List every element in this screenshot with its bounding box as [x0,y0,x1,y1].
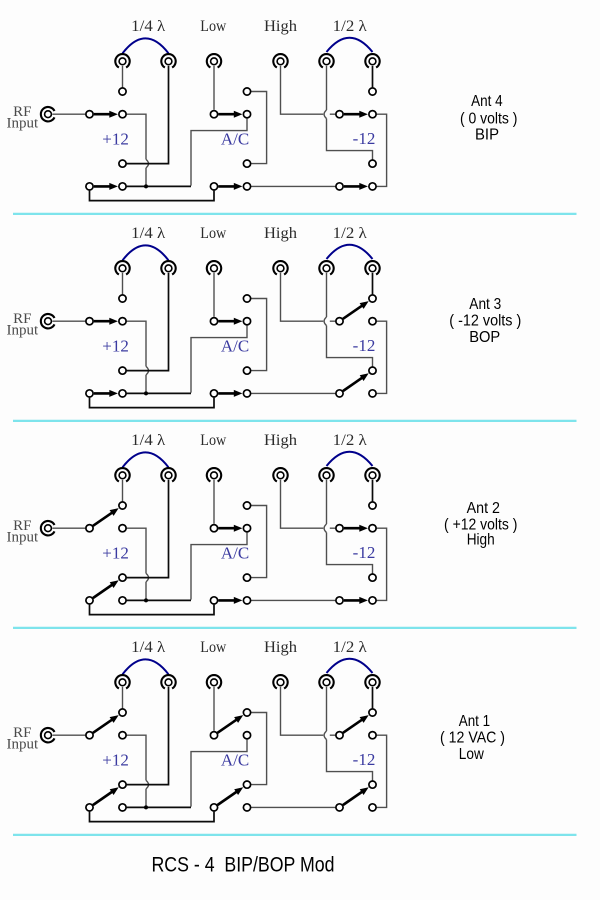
pin K2 NC-1 panel 3 [243,525,250,532]
wire K3 right bus panel 3 [377,528,387,600]
wire 1/4-wave-right drop panel 1 [127,66,169,164]
junction panel 1 [144,184,148,188]
terminal 1/2-wave right panel 2 [365,261,379,274]
contact arrow K2 pole-2 panel 1 [218,183,242,190]
wire 1/4-wave-right drop panel 3 [127,480,169,578]
pin K2 NC-1 panel 2 [243,318,250,325]
svg-text:1/2 λ: 1/2 λ [333,225,367,242]
wire 1/2-wave-left drop to -12 pin panel 4 [327,687,373,781]
terminal High panel 2 [273,261,287,274]
svg-text:+12: +12 [102,130,129,149]
svg-text:1/2 λ: 1/2 λ [333,639,367,656]
1/4-wave jumper arc panel 4 [123,659,169,674]
1/4-wave jumper arc panel 2 [123,245,169,260]
wire High drop and lead panel 3 [281,480,336,528]
terminal 1/4-wave left panel 2 [115,261,129,274]
wire bottom bus left panel 1 [127,185,191,187]
wire bottom bus left panel 4 [127,806,191,808]
pin K2 NO lower panel 3 [243,574,250,581]
wire RF lead panel 2 [52,320,85,322]
pin K1 NO upper panel 4 [119,709,126,716]
pin K3 pole-1 movable panel 1 [336,111,343,118]
svg-text:1/2 λ: 1/2 λ [333,18,367,35]
pin K3 NC-2 panel 4 [369,804,376,811]
svg-text:High: High [264,225,297,242]
pin K2 pole-1 movable panel 3 [210,525,217,532]
1/2-wave jumper arc panel 2 [327,245,373,259]
wire 1/4-wave-left drop panel 1 [122,66,124,87]
terminal 1/2-wave right panel 3 [365,468,379,481]
terminal 1/4-wave left panel 3 [115,468,129,481]
contact arrow K3 pole-2 panel 3 [344,597,368,604]
svg-text:A/C: A/C [221,337,249,356]
svg-text:High: High [467,532,495,549]
svg-text:Input: Input [6,116,38,132]
svg-text:Input: Input [6,737,38,753]
pin K2 NO lower panel 1 [243,160,250,167]
svg-text:-12: -12 [353,129,376,148]
pin K1 NC-2 panel 4 [119,804,126,811]
pin K1 pole-2 movable panel 4 [86,804,93,811]
svg-text:1/2 λ: 1/2 λ [333,432,367,449]
svg-text:A/C: A/C [221,544,249,563]
pin K2 NO upper panel 1 [243,88,250,95]
wire K2 to K3 bottom panel 4 [251,806,335,808]
pin K1 NO upper panel 2 [119,295,126,302]
wire Low drop panel 1 [213,66,215,110]
contact arrow K1 pole-2 engaged-up panel 3 [93,580,119,598]
divider line 4 [13,834,577,836]
pin K1 NC-2 panel 2 [119,390,126,397]
contact arrow K1 pole-2 panel 1 [94,183,118,190]
wire 1/2-wave-right drop panel 1 [372,66,374,87]
1/2-wave jumper arc panel 1 [327,38,373,52]
contact arrow K3 pole-2 engaged-up panel 4 [343,787,369,805]
wire K2 pole to bottom bus panel 4 [191,739,247,806]
pin K2 NO lower panel 4 [243,781,250,788]
svg-text:Ant 4: Ant 4 [471,93,503,110]
svg-text:( -12 volts ): ( -12 volts ) [449,313,521,330]
pin K1 NC-1 panel 1 [119,111,126,118]
pin K3 pole-2 movable panel 1 [336,183,343,190]
svg-text:-12: -12 [353,336,376,355]
pin K3 pole-2 movable panel 4 [336,804,343,811]
divider line 1 [13,213,577,215]
pin K2 NO lower panel 2 [243,367,250,374]
svg-text:( 0 volts ): ( 0 volts ) [460,111,518,128]
pin K3 NO upper panel 3 [369,502,376,509]
wire K3 right bus panel 1 [377,114,387,186]
wire hop over 1/4-wave line panel 3 [146,573,149,582]
svg-text:1/4 λ: 1/4 λ [131,18,165,35]
wire A/C loop panel 4 [251,713,267,785]
wire 1/2-wave-right drop panel 2 [372,273,374,294]
pin K3 pole-2 movable panel 3 [336,597,343,604]
wire Low drop panel 2 [213,273,215,317]
terminal Low panel 3 [207,468,221,481]
pin K2 NC-2 panel 1 [243,183,250,190]
pin K3 NO upper panel 1 [369,88,376,95]
divider line 3 [13,627,577,629]
svg-text:1/4 λ: 1/4 λ [131,225,165,242]
wire RF lead panel 1 [52,113,85,115]
terminal 1/4-wave left panel 4 [115,675,129,688]
wire K1 pin to bottom bus panel 4 [127,735,146,807]
wire hop over High lead panel 1 [324,110,326,119]
contact arrow K1 pole-1 engaged-up panel 3 [93,508,119,526]
wire High drop and lead panel 2 [281,273,336,321]
svg-text:1/4 λ: 1/4 λ [131,639,165,656]
wire 1/2-wave-left drop to -12 pin panel 3 [327,480,373,574]
pin K1 NO lower panel 3 [119,574,126,581]
pin K2 NC-2 panel 3 [243,597,250,604]
pin K2 pole-1 movable panel 1 [210,111,217,118]
pin K2 pole-2 movable panel 3 [210,597,217,604]
svg-text:+12: +12 [102,337,129,356]
wire 1/2-wave-right drop panel 4 [372,687,374,708]
contact arrow K3 pole-1 panel 1 [344,111,368,118]
wire 1/2-wave-right drop panel 3 [372,480,374,501]
RF input connector panel 2 [41,314,55,328]
pin K3 pole-1 movable panel 3 [336,525,343,532]
wire K2 pole to bottom bus panel 1 [191,118,247,185]
svg-text:( 12 VAC ): ( 12 VAC ) [440,730,505,747]
pin K2 NC-2 panel 4 [243,804,250,811]
terminal 1/2-wave left panel 1 [319,54,333,67]
terminal Low panel 2 [207,261,221,274]
1/4-wave jumper arc panel 3 [123,452,169,467]
svg-text:Low: Low [200,639,226,656]
contact arrow K1 pole-1 panel 2 [94,318,118,325]
pin K2 pole-1 movable panel 4 [210,732,217,739]
contact arrow K2 pole-1 engaged-up panel 4 [218,715,244,733]
pin K3 NO lower panel 3 [369,574,376,581]
contact arrow K1 pole-2 engaged-up panel 4 [93,787,119,805]
wire 1/4-wave-right drop panel 2 [127,273,169,371]
wire 1/4-wave-left drop panel 3 [122,480,124,501]
wire Low drop panel 3 [213,480,215,524]
pin K3 NC-2 panel 3 [369,597,376,604]
svg-text:Ant 1: Ant 1 [459,713,490,730]
contact arrow K1 pole-1 engaged-up panel 4 [93,715,119,733]
wire A/C loop panel 2 [251,299,267,371]
pin K1 NC-1 panel 2 [119,318,126,325]
pin K1 pole-2 movable panel 2 [86,390,93,397]
svg-text:A/C: A/C [221,130,249,149]
contact arrow K2 pole-1 panel 3 [218,525,242,532]
contact arrow K2 pole-1 panel 2 [218,318,242,325]
svg-text:Ant 3: Ant 3 [469,296,501,313]
wire RF lead panel 4 [52,734,85,736]
pin K2 pole-2 movable panel 1 [210,183,217,190]
pin K2 pole-1 movable panel 2 [210,318,217,325]
wire A/C loop panel 3 [251,506,267,578]
pin K1 NO upper panel 3 [119,502,126,509]
1/2-wave jumper arc panel 4 [327,659,373,673]
pin K1 pole-1 movable panel 4 [86,732,93,739]
wire 1/4-wave-right drop panel 4 [127,687,169,785]
junction panel 4 [144,805,148,809]
pin K3 NC-1 panel 1 [369,111,376,118]
pin K3 pole-1 movable panel 2 [336,318,343,325]
wire K1 pin to bottom bus panel 1 [127,114,146,186]
1/4-wave jumper arc panel 1 [123,38,169,53]
wire 1/2-wave-left drop to -12 pin panel 1 [327,66,373,160]
contact arrow K2 pole-2 engaged-up panel 4 [218,787,244,805]
terminal 1/4-wave right panel 4 [161,675,175,688]
terminal High panel 4 [273,675,287,688]
wire hop over High lead panel 3 [324,524,326,533]
terminal 1/4-wave right panel 1 [161,54,175,67]
svg-text:Low: Low [459,746,484,763]
pin K1 pole-2 movable panel 1 [86,183,93,190]
wire K3 right bus panel 4 [377,735,387,807]
wire lower return panel 4 [90,812,215,822]
pin K3 NO lower panel 4 [369,781,376,788]
svg-text:-12: -12 [353,543,376,562]
wire lower return panel 2 [90,398,215,408]
RF input connector panel 1 [41,107,55,121]
wire High drop and lead panel 1 [281,66,336,114]
terminal Low panel 4 [207,675,221,688]
wire Low drop panel 4 [213,687,215,731]
terminal 1/2-wave left panel 4 [319,675,333,688]
svg-text:Input: Input [6,323,38,339]
svg-text:High: High [264,18,297,35]
pin K3 pole-1 movable panel 4 [336,732,343,739]
svg-text:Low: Low [200,225,226,242]
terminal 1/2-wave left panel 3 [319,468,333,481]
svg-text:BOP: BOP [469,329,500,346]
wire hop over High lead panel 4 [324,731,326,740]
contact arrow K2 pole-2 panel 3 [218,597,242,604]
terminal 1/4-wave right panel 3 [161,468,175,481]
pin K2 pole-2 movable panel 4 [210,804,217,811]
wire K2 to K3 bottom panel 1 [251,185,335,187]
terminal High panel 1 [273,54,287,67]
terminal High panel 3 [273,468,287,481]
junction panel 3 [144,598,148,602]
wire bottom bus left panel 2 [127,392,191,394]
wire K3 right bus panel 2 [377,321,387,393]
terminal 1/4-wave right panel 2 [161,261,175,274]
RF input connector panel 4 [41,728,55,742]
pin K1 NO lower panel 4 [119,781,126,788]
wire K2 pole to bottom bus panel 3 [191,532,247,599]
svg-text:Low: Low [200,18,226,35]
contact arrow K1 pole-1 panel 1 [94,111,118,118]
pin K3 NC-2 panel 1 [369,183,376,190]
svg-text:High: High [264,639,297,656]
svg-text:+12: +12 [102,751,129,770]
svg-text:Low: Low [200,432,226,449]
contact arrow K2 pole-2 panel 2 [218,390,242,397]
pin K2 NO upper panel 3 [243,502,250,509]
contact arrow K1 pole-2 panel 2 [94,390,118,397]
wire High drop and lead panel 4 [281,687,336,735]
1/2-wave jumper arc panel 3 [327,452,373,466]
wire bottom bus left panel 3 [127,599,191,601]
pin K3 NC-2 panel 2 [369,390,376,397]
pin K1 pole-2 movable panel 3 [86,597,93,604]
terminal Low panel 1 [207,54,221,67]
contact arrow K3 pole-1 engaged-up panel 2 [343,301,369,319]
pin K3 NO lower panel 1 [369,160,376,167]
pin K2 NO upper panel 2 [243,295,250,302]
pin K2 NC-2 panel 2 [243,390,250,397]
pin K1 pole-1 movable panel 2 [86,318,93,325]
pin K1 NC-1 panel 3 [119,525,126,532]
terminal 1/2-wave left panel 2 [319,261,333,274]
wire hop over 1/4-wave line panel 2 [146,366,149,375]
wire lower return panel 3 [90,605,215,615]
pin K1 NC-1 panel 4 [119,732,126,739]
pin K2 pole-2 movable panel 2 [210,390,217,397]
wire 1/4-wave-left drop panel 2 [122,273,124,294]
svg-text:Ant 2: Ant 2 [467,500,500,517]
wire hop over High lead panel 2 [324,317,326,326]
pin K2 NC-1 panel 4 [243,732,250,739]
contact arrow K2 pole-1 panel 1 [218,111,242,118]
pin K1 NC-2 panel 1 [119,183,126,190]
wire K2 to K3 bottom panel 3 [251,599,335,601]
pin K3 NO upper panel 2 [369,295,376,302]
wire K2 pole to bottom bus panel 2 [191,325,247,392]
pin K3 NC-1 panel 3 [369,525,376,532]
terminal 1/4-wave left panel 1 [115,54,129,67]
pin K3 NC-1 panel 2 [369,318,376,325]
RF input connector panel 3 [41,521,55,535]
svg-text:RCS - 4 BIP/BOP Mod: RCS - 4 BIP/BOP Mod [152,854,335,877]
svg-text:A/C: A/C [221,751,249,770]
svg-text:1/4 λ: 1/4 λ [131,432,165,449]
pin K1 NO upper panel 1 [119,88,126,95]
contact arrow K3 pole-2 engaged-up panel 2 [343,373,369,391]
pin K1 NO lower panel 1 [119,160,126,167]
divider line 2 [13,420,577,422]
pin K2 NO upper panel 4 [243,709,250,716]
wire 1/4-wave-left drop panel 4 [122,687,124,708]
wire hop over 1/4-wave line panel 1 [146,159,149,168]
wire K1 pin to bottom bus panel 3 [127,528,146,600]
contact arrow K3 pole-2 panel 1 [344,183,368,190]
pin K3 NC-1 panel 4 [369,732,376,739]
pin K3 NO lower panel 2 [369,367,376,374]
wire K2 to K3 bottom panel 2 [251,392,335,394]
junction panel 2 [144,391,148,395]
svg-text:High: High [264,432,297,449]
pin K3 NO upper panel 4 [369,709,376,716]
wire hop over 1/4-wave line panel 4 [146,780,149,789]
terminal 1/2-wave right panel 4 [365,675,379,688]
wire 1/2-wave-left drop to -12 pin panel 2 [327,273,373,367]
svg-text:Input: Input [6,530,38,546]
pin K1 pole-1 movable panel 3 [86,525,93,532]
pin K1 NC-2 panel 3 [119,597,126,604]
contact arrow K3 pole-1 engaged-up panel 4 [343,715,369,733]
wire A/C loop panel 1 [251,92,267,164]
svg-text:-12: -12 [353,750,376,769]
pin K2 NC-1 panel 1 [243,111,250,118]
svg-text:+12: +12 [102,544,129,563]
svg-text:BIP: BIP [475,127,499,144]
terminal 1/2-wave right panel 1 [365,54,379,67]
wire lower return panel 1 [90,191,215,201]
pin K1 NO lower panel 2 [119,367,126,374]
pin K1 pole-1 movable panel 1 [86,111,93,118]
contact arrow K3 pole-1 panel 3 [344,525,368,532]
pin K3 pole-2 movable panel 2 [336,390,343,397]
wire K1 pin to bottom bus panel 2 [127,321,146,393]
wire RF lead panel 3 [52,527,85,529]
